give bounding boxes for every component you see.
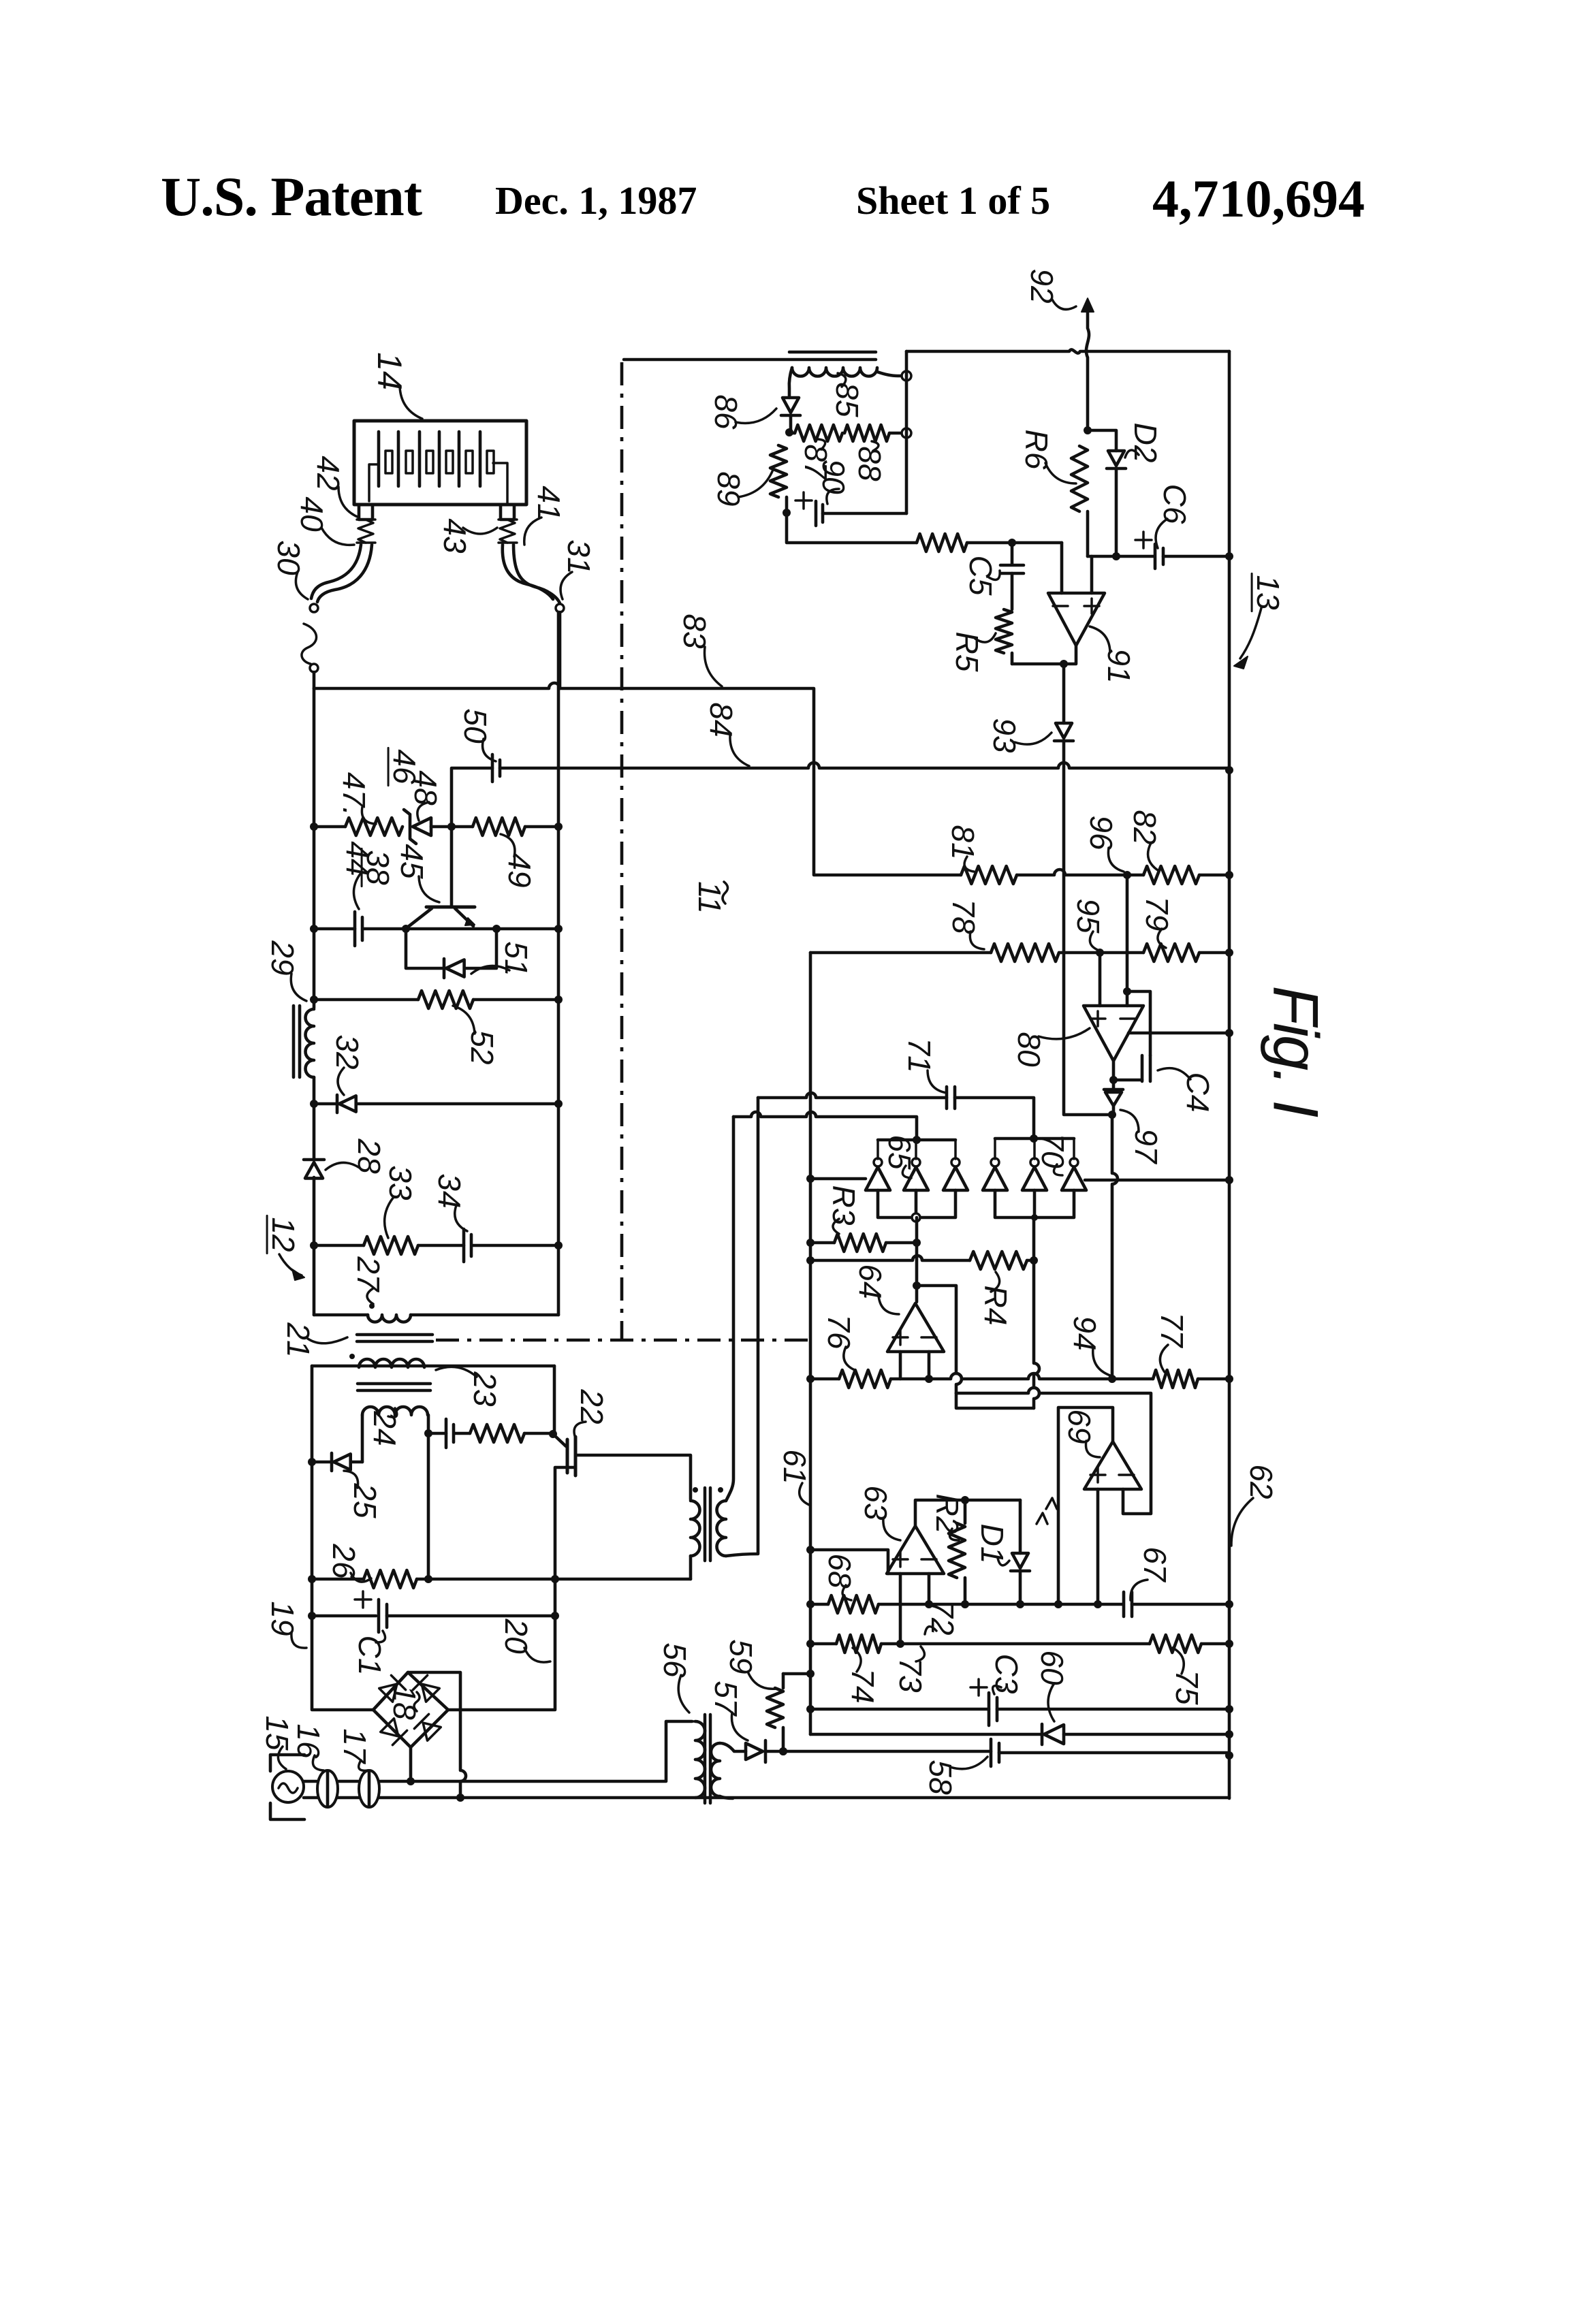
svg-text:72: 72 [925, 1600, 960, 1635]
wire 82 to rail [1199, 874, 1229, 877]
svg-text:31: 31 [561, 539, 597, 574]
diode 57 [746, 1743, 763, 1760]
transformer 23 core [358, 1384, 430, 1390]
row capacitor 58 [765, 1750, 991, 1753]
row: resistor 47 / zener 46-48 / resistor 49 [314, 825, 345, 829]
top rail [906, 349, 1229, 353]
svg-text:C6: C6 [1157, 484, 1192, 524]
inverter 65 b [904, 1167, 928, 1190]
svg-text:30: 30 [271, 540, 306, 575]
diode 51 [443, 959, 446, 978]
diode D2 [1108, 451, 1124, 466]
bridge 18 bottom-left edge [373, 1710, 411, 1747]
core of coil 29 [294, 1006, 300, 1077]
resistor 79 [1143, 944, 1199, 961]
row R3 [810, 1241, 834, 1245]
row 68 and capacitor 67 [810, 1603, 828, 1606]
svg-text:25: 25 [347, 1482, 383, 1518]
capacitor 67 [1124, 1592, 1132, 1617]
op-amp 80 feedback to C4 [1127, 991, 1150, 1055]
inverter group 70 bottom box [995, 1190, 1074, 1217]
svg-text:43: 43 [437, 518, 473, 554]
svg-text:59: 59 [723, 1639, 759, 1674]
resistor 49 [473, 818, 525, 835]
svg-text:D1: D1 [975, 1524, 1010, 1564]
diode 32 [336, 1095, 339, 1113]
winding 24 right lead [427, 1415, 430, 1433]
capacitor 90 [816, 501, 823, 526]
capacitor C1 [379, 1599, 387, 1632]
bridge 18 bottom-right edge [411, 1710, 448, 1747]
resistor 74 [836, 1635, 881, 1653]
node 31 terminal circle [556, 604, 564, 612]
svg-text:C3: C3 [989, 1654, 1024, 1694]
svg-text:Sheet 1 of 5: Sheet 1 of 5 [856, 178, 1050, 223]
resistor R3 [834, 1234, 886, 1252]
capacitor C6 plus [1135, 532, 1152, 548]
op-amp 64 output line [917, 1286, 962, 1393]
MOSFET 22 drain lead [575, 1455, 691, 1499]
resistor R1 [470, 1424, 524, 1442]
transformer 66 core [705, 1488, 710, 1561]
resistor R6 [1071, 446, 1088, 511]
resistor R5 [996, 609, 1012, 653]
pickup coil 29 [306, 1009, 315, 1077]
capacitor C4 [1142, 1055, 1150, 1081]
svg-text:29: 29 [265, 940, 300, 975]
svg-text:R2: R2 [930, 1494, 965, 1534]
capacitor 44 [353, 912, 357, 946]
alternator winding 85 [792, 368, 877, 377]
bridge 18 top-right edge [408, 1672, 448, 1710]
svg-text:33: 33 [383, 1165, 418, 1200]
svg-text:94: 94 [1067, 1316, 1103, 1350]
op-amp 91 [1048, 593, 1105, 646]
svg-text:78: 78 [946, 899, 981, 934]
resistor 26 [364, 1570, 417, 1588]
svg-text:45: 45 [394, 844, 430, 879]
transformer 85 core upper [789, 351, 876, 354]
AC source sine [279, 1783, 298, 1793]
right rail [1228, 351, 1231, 1798]
inverter group 70 top line [995, 1137, 1074, 1141]
diode 25 [330, 1453, 334, 1471]
rail 61 vertical [809, 953, 812, 1734]
capacitor C2 [445, 1419, 448, 1448]
inverter 70 c [1062, 1167, 1086, 1190]
svg-text:C4: C4 [1180, 1072, 1216, 1113]
AC source 15 circle [272, 1771, 304, 1802]
op-amp 69 output [1058, 1407, 1113, 1604]
transformer 56 secondary winding [711, 1743, 720, 1796]
svg-text:95: 95 [1071, 898, 1106, 934]
resistor 89 [770, 445, 787, 497]
svg-text:88: 88 [852, 446, 887, 481]
wire from points to bus [313, 672, 316, 688]
resistor on 91 input row [917, 534, 967, 552]
transformer 66 secondary bottom lead / vertical B [726, 1098, 758, 1556]
svg-text:34: 34 [432, 1173, 467, 1208]
wire zener to 49 [431, 825, 473, 829]
svg-text:81: 81 [945, 825, 981, 859]
capacitor C1 plus [355, 1591, 371, 1608]
svg-text:15: 15 [259, 1715, 295, 1751]
svg-text:50: 50 [458, 708, 493, 744]
op-amp 80 [1084, 1006, 1143, 1061]
feedthrough capacitor 17 [359, 1770, 379, 1807]
node at 663,1214 [447, 823, 456, 831]
svg-text:R6: R6 [1019, 430, 1054, 470]
wire 31 down [558, 612, 562, 688]
op-amp 64 [887, 1303, 944, 1352]
MOSFET 22 gate bar [566, 1439, 569, 1473]
capacitor C5 [1011, 543, 1014, 564]
transistor 45 emitter with arrow [455, 908, 473, 926]
diode 86 [783, 398, 799, 413]
winding 24 [362, 1407, 428, 1415]
distributor cap electrodes [377, 432, 381, 486]
terminal 43 spring [500, 520, 515, 543]
svg-text:91: 91 [1101, 648, 1137, 683]
diode D1 [1019, 1500, 1022, 1553]
svg-text:71: 71 [902, 1038, 937, 1072]
transformer 56 primary top lead [692, 1720, 695, 1723]
ignition cable 41 [503, 545, 553, 599]
inverter 70 a [983, 1167, 1007, 1190]
row: diode 32 [314, 1102, 337, 1106]
svg-text:77: 77 [1154, 1312, 1190, 1348]
label 21 leader [308, 1337, 347, 1343]
capacitor 50 branch [452, 768, 492, 827]
resistor 59 stub [783, 1672, 810, 1676]
capacitor 34 [462, 1229, 466, 1262]
MOSFET 22 source lead [448, 1467, 575, 1710]
arrow 13 [1240, 608, 1261, 658]
svg-text:86: 86 [708, 394, 744, 430]
diode 28 on rail [304, 1158, 324, 1162]
svg-text:69: 69 [1062, 1409, 1097, 1444]
svg-text:96: 96 [1084, 815, 1119, 850]
svg-text:63: 63 [858, 1485, 894, 1521]
row: resistor 33 capacitor 34 [314, 1244, 364, 1247]
svg-text:92: 92 [1024, 268, 1060, 303]
svg-text:83: 83 [677, 614, 712, 649]
svg-text:61: 61 [777, 1449, 812, 1484]
svg-text:13: 13 [1250, 575, 1286, 610]
right rail lower block upper part [553, 1366, 556, 1434]
diode 93 branch [1062, 664, 1066, 723]
svg-text:67: 67 [1137, 1546, 1173, 1582]
svg-text:79: 79 [1139, 896, 1175, 931]
capacitor C3 plus [970, 1679, 987, 1696]
wire 83 top bus [314, 683, 961, 875]
resistor 59 [782, 1674, 785, 1688]
svg-text:58: 58 [923, 1760, 958, 1795]
inverter 65 a [866, 1167, 890, 1190]
row C3 [810, 1708, 989, 1711]
bus 1733 to rail [1085, 1179, 1229, 1182]
resistor R2 [964, 1500, 967, 1523]
op-amp 80 output node [1113, 1061, 1142, 1080]
capacitor C6 [1155, 544, 1163, 569]
vertical 1331 to rail [905, 351, 908, 513]
svg-text:84: 84 [704, 702, 739, 737]
inverter 65 c [943, 1167, 968, 1190]
svg-text:27: 27 [351, 1256, 386, 1292]
MOSFET 22 gate lead [553, 1434, 566, 1446]
svg-text:56: 56 [657, 1642, 693, 1678]
transistor 45 collector [407, 908, 432, 927]
zener diode 46 48 [404, 810, 416, 844]
bridge 18 diode TR [413, 1675, 440, 1702]
svg-text:93: 93 [987, 718, 1022, 753]
bridge 18 diode BL [380, 1718, 407, 1745]
op-amp 63 minus lead [928, 1574, 931, 1604]
resistors 87 and 88 [789, 432, 795, 435]
vertical 65-to-64 [915, 1217, 919, 1302]
op-amp 64 input leads [900, 1352, 929, 1379]
bridge 18 diode TL [379, 1675, 406, 1702]
svg-text:62: 62 [1244, 1464, 1279, 1499]
row resistor 26 [312, 1578, 364, 1581]
node 820,1214 [554, 823, 563, 831]
transformer 66 secondary winding [717, 1501, 727, 1556]
AC source bracket [270, 1755, 304, 1771]
resistor 78 [991, 944, 1059, 961]
svg-text:70: 70 [1035, 1133, 1071, 1168]
terminal 42 body [359, 505, 373, 520]
svg-text:4,710,694: 4,710,694 [1152, 169, 1365, 228]
coil 27 [368, 1315, 411, 1322]
op-amp 63 plus lead [899, 1574, 902, 1644]
diode 51 clamp loop [406, 929, 444, 968]
svg-text:R3: R3 [826, 1185, 862, 1226]
jog wire [956, 1393, 1034, 1408]
input wire to inverter 65 [810, 1177, 866, 1181]
svg-text:64: 64 [853, 1264, 888, 1299]
diode 60 [1041, 1724, 1044, 1745]
row line under transistor [406, 927, 558, 931]
winding 24 left lead [361, 1415, 364, 1462]
svg-text:57: 57 [708, 1681, 744, 1717]
bridge AC node top jog to line 2 [408, 1672, 466, 1798]
node R6 D2 92 [1084, 426, 1092, 434]
resistor 82 [1143, 866, 1199, 884]
svg-text:23: 23 [467, 1371, 503, 1407]
inverter group 65 top line [878, 1139, 955, 1142]
svg-text:76: 76 [821, 1314, 857, 1350]
distributor cap 14 box [354, 421, 526, 505]
line 2 from transformer 66 to inverter 65 [733, 1112, 917, 1139]
op-amp 91 plus input lead [1090, 556, 1094, 593]
svg-text:Dec. 1, 1987: Dec. 1, 1987 [495, 178, 697, 223]
winding 85 right lead [877, 372, 906, 376]
distributor rotor leads [369, 464, 379, 501]
svg-text:60: 60 [1034, 1650, 1070, 1685]
transformer 66 secondary top lead / vertical A [726, 1117, 733, 1501]
wire to comparator row [787, 513, 917, 543]
svg-text:R4: R4 [978, 1286, 1013, 1326]
right rail of unit 12 [557, 612, 560, 1315]
row 76 94 77 [810, 1378, 839, 1381]
node 89-90 [783, 509, 791, 517]
wire 64 out to 69 feedback [956, 1388, 1151, 1514]
svg-text:C5: C5 [963, 556, 998, 596]
svg-text:74: 74 [845, 1668, 881, 1703]
resistor 77 [1153, 1370, 1198, 1388]
ignition cable 40 [311, 545, 361, 599]
bridge 18 diode BR [414, 1714, 441, 1741]
wire 49 to rail [525, 825, 558, 829]
row diode 60 [810, 1733, 1042, 1736]
svg-text:21: 21 [281, 1322, 316, 1357]
svg-text:26: 26 [326, 1543, 362, 1579]
svg-text:38: 38 [360, 850, 396, 885]
svg-text:R5: R5 [949, 632, 985, 672]
row C6 [1088, 555, 1154, 558]
op-amp 63 [887, 1526, 944, 1574]
svg-text:52: 52 [464, 1030, 500, 1064]
top line of lower block [312, 1365, 554, 1368]
wire 84 from cap 50 to right [500, 763, 1229, 768]
capacitor 71 [947, 1087, 955, 1109]
row R4 with hop [810, 1256, 970, 1260]
resistor 76 [839, 1370, 891, 1388]
resistor 52 [418, 991, 473, 1008]
row capacitor C1 [312, 1614, 376, 1618]
diode 93 [1056, 723, 1072, 738]
svg-text:28: 28 [351, 1138, 387, 1174]
svg-text:89: 89 [711, 471, 746, 506]
capacitor C3 [989, 1693, 997, 1725]
op-amp 69 [1084, 1442, 1141, 1489]
MOSFET 22 channel bar [574, 1437, 578, 1476]
transformer 56 secondary bottom lead [720, 1796, 733, 1798]
transformer 66 primary winding [691, 1501, 700, 1556]
secondary coil 23 [359, 1359, 424, 1367]
left rail lower block [312, 1366, 373, 1710]
svg-text:U.S. Patent: U.S. Patent [161, 165, 422, 227]
svg-text:42: 42 [311, 456, 346, 490]
row: capacitor 44 and transistor 45 [314, 927, 355, 931]
row diode 25 [312, 1461, 332, 1464]
terminal 42 spring [358, 520, 373, 543]
transformer 66 primary bottom lead [689, 1556, 693, 1579]
svg-text:51: 51 [499, 941, 534, 976]
resistor 68 [828, 1595, 879, 1613]
svg-text:97: 97 [1128, 1128, 1164, 1164]
bottom row of unit 12 with primary coil 27 [314, 1314, 368, 1317]
op-amp 91 output to feedback [1012, 646, 1076, 664]
node under diode 97 [1108, 1111, 1116, 1119]
svg-text:65: 65 [882, 1134, 917, 1170]
vertical from inverter 70 bottom [1034, 1217, 1039, 1408]
wire cap44 to transistor [363, 927, 406, 931]
wire 81 to 82 [1017, 870, 1143, 875]
resistor 81 [961, 866, 1017, 884]
resistor 75 [1150, 1635, 1201, 1653]
node 95 vertical [1099, 953, 1102, 1006]
input stub from rail 61 [810, 1550, 888, 1574]
inverter 70 b [1022, 1167, 1047, 1190]
svg-text:82: 82 [1127, 810, 1163, 844]
shaft dash-dot horizontal to transformer 21 [436, 1339, 815, 1342]
svg-text:41: 41 [531, 486, 567, 520]
node x629 vertical [427, 1433, 430, 1579]
svg-text:49: 49 [502, 853, 537, 887]
line 1 from transformer 66 through capacitor 71 [758, 1093, 947, 1098]
node 96 vertical [1123, 871, 1131, 879]
svg-text:75: 75 [1169, 1670, 1205, 1705]
bridge AC node bottom [409, 1747, 413, 1781]
op-amp 63 output line [915, 1500, 1020, 1526]
svg-text:D2: D2 [1128, 423, 1163, 463]
transformer 56 secondary top lead to diode 57 [720, 1743, 746, 1751]
row: resistor 52 [314, 998, 418, 1002]
resistor 33 [364, 1237, 418, 1254]
left rail of unit 12 [313, 688, 316, 1008]
row C2 R1 [428, 1432, 446, 1435]
op-amp 80 output to rail [1128, 1032, 1229, 1035]
svg-text:40: 40 [294, 496, 330, 532]
transformer 56 core [705, 1715, 710, 1803]
svg-text:16: 16 [291, 1723, 326, 1759]
coil 27 polarity dot [369, 1303, 375, 1309]
svg-text:22: 22 [574, 1388, 610, 1424]
winding 85 left lead [789, 368, 792, 398]
svg-text:19: 19 [265, 1601, 300, 1636]
svg-text:14: 14 [370, 352, 409, 390]
transformer 85 core lower / shaft line [624, 358, 876, 362]
wire 97 down to node 94 [1112, 1115, 1118, 1379]
AC line 2 / bottom rail [304, 1796, 1229, 1800]
capacitor 90 plus [795, 492, 812, 509]
svg-text:68: 68 [822, 1553, 857, 1589]
breaker points switch 35 [310, 664, 318, 672]
svg-text:Fig. I: Fig. I [1261, 986, 1332, 1118]
row 78 79 [810, 951, 991, 955]
svg-text:17: 17 [337, 1728, 373, 1764]
svg-text:47.: 47. [336, 772, 372, 816]
op-amp 69 plus lead [1096, 1489, 1100, 1604]
svg-text:85: 85 [829, 382, 865, 417]
svg-text:73: 73 [893, 1657, 928, 1693]
capacitor 58 [991, 1739, 999, 1766]
svg-text:32: 32 [330, 1034, 365, 1069]
AC line 1 [304, 1780, 411, 1783]
node 86-87-89 [785, 428, 793, 436]
svg-text:48: 48 [408, 770, 443, 806]
shaft dash-dot vertical [620, 362, 624, 1339]
left rail continues [313, 1077, 316, 1158]
bridge 18 top-left edge [373, 1672, 408, 1710]
transistor 45 base bar [426, 906, 475, 909]
resistor R4 [970, 1252, 1027, 1269]
transformer 66 polarity dots [693, 1487, 698, 1493]
left rail lower [313, 1245, 316, 1315]
transistor 45 base lead from node 663 [450, 827, 454, 907]
feedthrough capacitor 16 [317, 1770, 338, 1807]
node 30 terminal circle [310, 604, 318, 612]
resistor 47 [345, 818, 402, 835]
row 74 73 75 [810, 1642, 836, 1646]
node 461,1214 [310, 823, 318, 831]
squiggle 1M label [1037, 1498, 1057, 1524]
inverter group 65 bottom box [878, 1190, 955, 1217]
coil 23 polarity dot [349, 1354, 355, 1359]
branch to D2 [1088, 430, 1116, 451]
diode 97 [1104, 1088, 1123, 1092]
